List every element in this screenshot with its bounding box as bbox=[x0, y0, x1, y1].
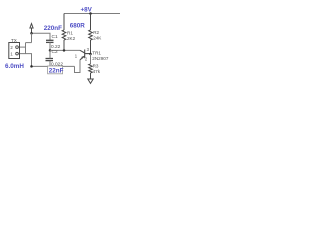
svg-text:1: 1 bbox=[75, 53, 78, 58]
wire vertical from node A down to TX pin2 elbow bbox=[31, 33, 33, 42]
collector diagonal bbox=[80, 50, 85, 53]
wire base node down to R3 bbox=[90, 54, 92, 64]
resistor R1 bbox=[62, 14, 66, 51]
ground bbox=[88, 79, 93, 83]
svg-text:R2: R2 bbox=[93, 30, 99, 35]
base lead bbox=[85, 53, 91, 55]
wire pin2 top jog bbox=[26, 42, 32, 44]
svg-text:3: 3 bbox=[87, 47, 90, 52]
svg-text:22nF: 22nF bbox=[49, 68, 64, 75]
junction dot F bbox=[30, 65, 33, 68]
bottom rail wire bbox=[32, 65, 75, 67]
resistor R2 bbox=[89, 14, 93, 54]
junction dot C under R1 bbox=[63, 49, 66, 52]
svg-text:1: 1 bbox=[10, 52, 13, 57]
svg-text:24K: 24K bbox=[93, 35, 102, 40]
svg-text:2: 2 bbox=[85, 56, 88, 61]
svg-text:47k: 47k bbox=[93, 69, 101, 74]
svg-text:2K2: 2K2 bbox=[67, 36, 76, 41]
emitter arrowhead bbox=[81, 56, 84, 59]
emitter diagonal bbox=[80, 56, 85, 60]
svg-text:680R: 680R bbox=[70, 22, 86, 29]
wire emitter return U-jog bbox=[75, 60, 81, 73]
svg-text:220nF: 220nF bbox=[44, 25, 62, 32]
svg-text:R3: R3 bbox=[93, 63, 99, 68]
junction dot A bbox=[30, 32, 33, 35]
+8V rail wire bbox=[64, 13, 120, 15]
svg-text:+8V: +8V bbox=[81, 6, 93, 13]
wire top node to C1 bbox=[32, 33, 51, 40]
svg-text:C2: C2 bbox=[52, 49, 58, 55]
base bar bbox=[84, 50, 86, 59]
connector TX bbox=[9, 43, 20, 59]
svg-text:2: 2 bbox=[10, 45, 13, 50]
wire mid node y=50 bbox=[50, 49, 80, 51]
junction dot D on rail bbox=[89, 12, 92, 15]
svg-text:2N2907: 2N2907 bbox=[92, 56, 109, 61]
capacitor C1 bbox=[46, 40, 54, 42]
junction dot B bbox=[49, 49, 52, 52]
svg-text:6.0mH: 6.0mH bbox=[5, 63, 24, 70]
capacitor C2 bbox=[46, 59, 54, 61]
junction dot E at base tap bbox=[89, 53, 92, 56]
wire TX pin2 path bbox=[19, 46, 26, 48]
svg-text:TR1: TR1 bbox=[92, 51, 101, 56]
svg-text:C1: C1 bbox=[52, 34, 58, 40]
svg-text:TX: TX bbox=[11, 38, 17, 43]
svg-text:R1: R1 bbox=[67, 30, 73, 35]
node A : tank-top net arrow symbol bbox=[30, 24, 33, 33]
value label 22nF (C2) with frame bbox=[48, 66, 63, 74]
wire TX pin1 to bottom rail bbox=[19, 54, 32, 67]
wire pin2 vertical bbox=[25, 43, 27, 54]
transistor TR1 2N2907 bbox=[80, 50, 91, 60]
resistor R3 bbox=[89, 64, 93, 79]
